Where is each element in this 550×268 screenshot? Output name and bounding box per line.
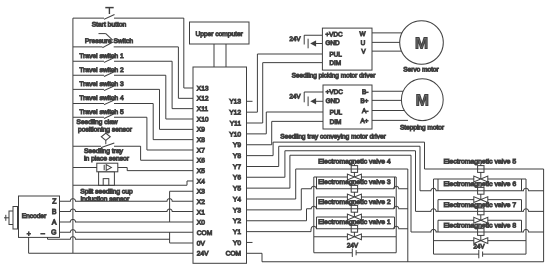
svg-text:X6: X6 [197, 158, 205, 165]
24V supply for picking motor driver [289, 35, 322, 48]
svg-text:X7: X7 [197, 147, 205, 154]
bank2 24V box top line [434, 240, 474, 242]
svg-text:Electromagnetic valve 5: Electromagnetic valve 5 [443, 159, 516, 166]
svg-text:positioning sensor: positioning sensor [78, 126, 133, 133]
wire driver B- to stepping motor [372, 90, 403, 92]
svg-text:Servo motor: Servo motor [403, 67, 439, 74]
svg-text:Upper computer: Upper computer [196, 31, 244, 38]
svg-text:DIM: DIM [329, 60, 341, 67]
svg-text:U: U [361, 40, 366, 47]
svg-text:Stepping motor: Stepping motor [400, 125, 445, 132]
bank1 24V battery row [314, 252, 353, 254]
svg-text:X9: X9 [197, 127, 205, 134]
wire Y3 feed to valve 3 [247, 209, 302, 211]
wire Y6 wrap to valve 7 [247, 176, 285, 178]
svg-text:Y8: Y8 [233, 153, 241, 160]
wire driver V to servo [372, 50, 402, 52]
svg-text:X8: X8 [197, 137, 205, 144]
svg-text:Y6: Y6 [233, 175, 241, 182]
start button pushbutton symbol [104, 8, 115, 20]
seedling picking motor driver box [322, 28, 372, 70]
wire Y2 feed to valve 2 [247, 220, 307, 222]
encoder B wire to X1 [60, 209, 194, 212]
svg-text:X4: X4 [197, 178, 205, 185]
svg-text:Seedling picking motor driver: Seedling picking motor driver [292, 73, 377, 80]
encoder box [19, 196, 60, 237]
wire travel switch 1 to X11 [171, 61, 173, 108]
wire PUL2 to Y10 [266, 111, 323, 113]
svg-text:B-: B- [362, 89, 368, 96]
bank1 outer return bus [407, 169, 409, 262]
svg-text:PUL: PUL [329, 52, 342, 59]
pressure switch symbol [99, 34, 114, 48]
svg-text:0V: 0V [197, 240, 206, 247]
svg-text:Y2: Y2 [233, 218, 241, 225]
valve 5 upper wire [425, 168, 544, 170]
seedling tray conveying motor driver box [323, 85, 372, 129]
bank2 24V battery row [434, 253, 479, 255]
24V supply for conveying motor driver [289, 92, 323, 106]
svg-text:Y0: Y0 [233, 240, 241, 247]
PLC main box [193, 67, 247, 263]
svg-text:Y12: Y12 [229, 110, 241, 117]
svg-text:Y3: Y3 [233, 207, 241, 214]
bank2 outer return bus [543, 169, 545, 262]
wire driver U to servo [372, 41, 400, 43]
travel switch 3 wire [73, 88, 104, 90]
valve 7 upper wire [416, 209, 544, 212]
svg-text:Y4: Y4 [233, 196, 241, 203]
svg-text:Electromagnetic valve 6: Electromagnetic valve 6 [443, 181, 516, 188]
svg-text:Electromagnetic valve 3: Electromagnetic valve 3 [318, 179, 391, 186]
svg-text:24V: 24V [347, 243, 359, 250]
stub Y13 [247, 100, 253, 102]
wire driver B+ to stepping motor [372, 99, 401, 101]
encoder shaft symbol [4, 207, 18, 230]
electromagnetic valve 4 symbol [347, 164, 361, 180]
svg-text:Y10: Y10 [229, 131, 241, 138]
wire Y8 wrap to valve 5 [247, 155, 274, 157]
svg-text:Seedling claw: Seedling claw [76, 119, 117, 126]
encoder plus wire to 24V pin [28, 237, 30, 253]
svg-text:+VDC: +VDC [326, 89, 344, 96]
wire driver W to servo [372, 32, 402, 34]
split cup sensor wire to X4 [73, 184, 187, 186]
travel switch 1 contact [104, 58, 115, 63]
svg-text:V: V [361, 49, 366, 56]
wire DIM2 to Y9 [272, 120, 323, 122]
svg-text:in place sensor: in place sensor [84, 155, 130, 162]
bank1 24V box top line [314, 236, 348, 238]
svg-text:X10: X10 [197, 116, 209, 123]
svg-text:Split seedling cup: Split seedling cup [80, 188, 133, 195]
svg-text:X13: X13 [197, 85, 209, 92]
svg-text:24V: 24V [289, 94, 301, 101]
PLC input pin labels [197, 85, 212, 257]
electromagnetic valve 8 symbol [474, 227, 488, 244]
svg-text:X0: X0 [197, 220, 205, 227]
svg-text:A+: A+ [360, 118, 368, 125]
encoder G wire to COM [60, 230, 194, 233]
svg-text:Travel switch 4: Travel switch 4 [79, 95, 124, 102]
svg-text:COM: COM [197, 230, 212, 237]
seedling tray sensor symbol [97, 163, 118, 185]
electromagnetic valve 5 symbol [474, 164, 488, 182]
svg-text:X12: X12 [197, 96, 209, 103]
left common bus [72, 18, 74, 253]
svg-text:Start button: Start button [92, 22, 127, 29]
svg-text:+VDC: +VDC [325, 31, 343, 38]
svg-text:Pressure Switch: Pressure Switch [85, 38, 134, 45]
svg-text:X5: X5 [197, 168, 205, 175]
svg-text:X11: X11 [197, 106, 209, 113]
svg-text:Travel switch 3: Travel switch 3 [79, 81, 124, 88]
wire X3 to encoder A (vertical) [170, 190, 193, 192]
label box valve 6 [434, 179, 527, 191]
wire upper computer to PLC left [213, 44, 215, 67]
wire Y1 feed to valve 1 [247, 231, 312, 233]
valve 8 upper wire [411, 229, 544, 232]
pressure switch wire [73, 46, 103, 48]
svg-text:X1: X1 [197, 209, 205, 216]
travel switch 5 wire [73, 116, 104, 118]
travel switch 1 wire [73, 60, 104, 62]
svg-text:Electromagnetic valve 8: Electromagnetic valve 8 [443, 222, 516, 229]
svg-text:–: – [41, 231, 45, 238]
wire start button to X13 [183, 18, 185, 88]
label box valve 3 [314, 177, 396, 189]
stub Y0 [247, 241, 253, 243]
svg-text:Y7: Y7 [233, 164, 241, 171]
bank1 24V feed verticals [314, 177, 396, 253]
svg-text:Travel switch 5: Travel switch 5 [79, 109, 124, 116]
svg-text:COM: COM [226, 251, 241, 258]
svg-text:GND: GND [326, 98, 341, 105]
encoder A wire to X0 [60, 219, 194, 222]
encoder pin labels [27, 199, 57, 238]
svg-text:Encoder: Encoder [22, 213, 47, 220]
svg-text:Y9: Y9 [233, 142, 241, 149]
svg-text:M: M [416, 93, 429, 110]
wire upper computer to PLC right [225, 44, 227, 67]
travel switch 2 contact [104, 72, 115, 77]
svg-text:W: W [360, 31, 367, 38]
COM return line [247, 252, 263, 254]
svg-text:Seedling tray conveying motor: Seedling tray conveying motor driver [280, 134, 386, 141]
svg-text:Y5: Y5 [233, 186, 241, 193]
wire Y5 wrap to valve 8 [247, 187, 290, 189]
travel switch 4 wire [73, 103, 104, 105]
svg-text:24V: 24V [473, 244, 485, 251]
valve 6 upper wire [420, 188, 544, 191]
svg-text:Z: Z [52, 199, 56, 206]
svg-text:X3: X3 [197, 189, 205, 196]
servo motor M1 [400, 21, 444, 65]
svg-text:Y1: Y1 [233, 229, 241, 236]
travel switch 2 wire [73, 74, 104, 76]
svg-text:X2: X2 [197, 199, 205, 206]
label box valve 2 [317, 197, 395, 209]
svg-text:Electromagnetic valve 7: Electromagnetic valve 7 [443, 202, 516, 209]
wire driver A- to stepping motor [372, 110, 404, 112]
electromagnetic valve 6 symbol [474, 185, 488, 202]
travel switch 5 contact [104, 114, 115, 119]
stepping motor M2 [401, 79, 443, 121]
valve 2 upper wire [307, 206, 408, 209]
wire tray sensor to X5 [126, 168, 128, 171]
seedling claw positioning sensor wire [73, 145, 101, 147]
svg-text:G: G [51, 230, 56, 237]
wire PUL1 to Y12 [257, 53, 322, 55]
wire travel switch 4 to X8 [152, 104, 154, 140]
svg-text:Seedling tray: Seedling tray [84, 148, 124, 155]
PLC output pin labels [226, 99, 242, 258]
svg-text:Electromagnetic valve 4: Electromagnetic valve 4 [318, 159, 391, 166]
valve 4 upper wire [296, 168, 408, 170]
svg-text:induction sensor: induction sensor [81, 196, 130, 203]
label box valve 1 [317, 217, 395, 229]
svg-text:M: M [415, 35, 428, 52]
label box valve 7 [438, 200, 522, 212]
bank2 24V feed verticals [434, 179, 527, 254]
wire travel switch 2 to X10 [165, 75, 167, 119]
wire Y4 feed to valve 4 [247, 198, 296, 200]
svg-text:Y11: Y11 [230, 120, 242, 127]
encoder minus wire [47, 237, 49, 239]
svg-text:Y13: Y13 [229, 99, 241, 106]
electromagnetic valve 1 symbol [347, 223, 361, 239]
svg-text:PUL: PUL [330, 110, 343, 117]
svg-text:Travel switch 1: Travel switch 1 [79, 53, 124, 60]
valve 1 upper wire [311, 226, 408, 229]
seedling claw sensor symbol [101, 131, 114, 148]
svg-text:A: A [52, 219, 57, 226]
battery 24V bank1 [352, 249, 356, 257]
COM to 0V bridge vertical [169, 232, 171, 243]
svg-text:B+: B+ [360, 98, 368, 105]
svg-text:DIM: DIM [330, 119, 342, 126]
wire travel switch 5 to X7 [146, 117, 148, 150]
svg-text:24V: 24V [289, 36, 301, 43]
travel switch 3 contact [104, 86, 115, 91]
valve 3 upper wire [301, 186, 408, 189]
svg-text:Travel switch 2: Travel switch 2 [79, 67, 124, 74]
svg-text:A-: A- [362, 108, 368, 115]
svg-text:GND: GND [325, 40, 340, 47]
battery 24V bank2 [479, 250, 483, 258]
wire pressure switch to X12 [177, 47, 179, 98]
svg-text:B: B [52, 209, 57, 216]
label box valve 8 [438, 220, 522, 232]
electromagnetic valve 7 symbol [474, 206, 488, 223]
upper computer box [190, 22, 250, 44]
electromagnetic valve 2 symbol [347, 203, 361, 220]
svg-text:24V: 24V [197, 251, 209, 258]
wire Y7 wrap to valve 6 [247, 165, 279, 167]
travel switch 4 contact [104, 100, 115, 105]
svg-text:+: + [27, 231, 31, 238]
svg-text:Electromagnetic valve 1: Electromagnetic valve 1 [318, 219, 391, 226]
wire claw sensor to X6 [140, 146, 142, 160]
seedling tray sensor wire [73, 167, 97, 169]
svg-text:Electromagnetic valve 2: Electromagnetic valve 2 [318, 199, 391, 206]
encoder Z wire to X2 [60, 199, 194, 202]
wire DIM1 to Y11 [263, 62, 323, 64]
wire travel switch 3 to X9 [159, 89, 161, 129]
start button wire [73, 17, 104, 19]
wire driver A+ to stepping motor [372, 119, 408, 121]
electromagnetic valve 3 symbol [347, 183, 361, 200]
